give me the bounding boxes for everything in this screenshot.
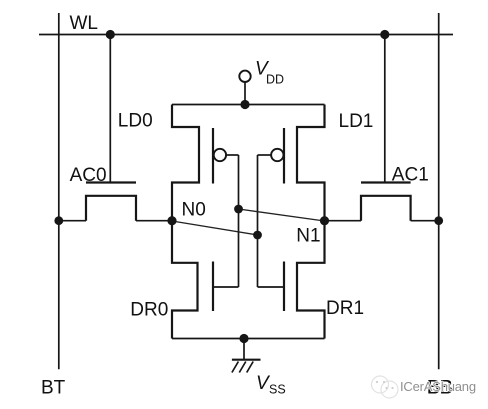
svg-text:ICerAShuang: ICerAShuang [400,379,476,394]
svg-text:WL: WL [70,13,99,34]
svg-text:DD: DD [266,73,284,87]
svg-text:BT: BT [41,378,66,399]
svg-text:N0: N0 [182,200,206,221]
svg-text:DR1: DR1 [326,298,364,319]
svg-text:N1: N1 [296,226,320,247]
svg-text:AC0: AC0 [70,165,107,186]
svg-text:LD1: LD1 [339,111,374,132]
svg-text:LD0: LD0 [118,111,153,132]
svg-text:AC1: AC1 [392,165,429,186]
svg-text:SS: SS [269,383,286,397]
svg-text:DR0: DR0 [130,300,168,321]
